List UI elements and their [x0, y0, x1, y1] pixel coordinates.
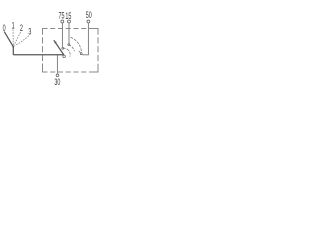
svg-text:75: 75 — [58, 10, 64, 21]
svg-text:3: 3 — [28, 26, 31, 37]
svg-text:15: 15 — [65, 10, 71, 21]
svg-text:1: 1 — [12, 20, 15, 31]
svg-text:0: 0 — [3, 22, 6, 33]
svg-text:2: 2 — [20, 23, 23, 34]
svg-text:50: 50 — [86, 10, 92, 21]
svg-text:30: 30 — [54, 77, 60, 88]
